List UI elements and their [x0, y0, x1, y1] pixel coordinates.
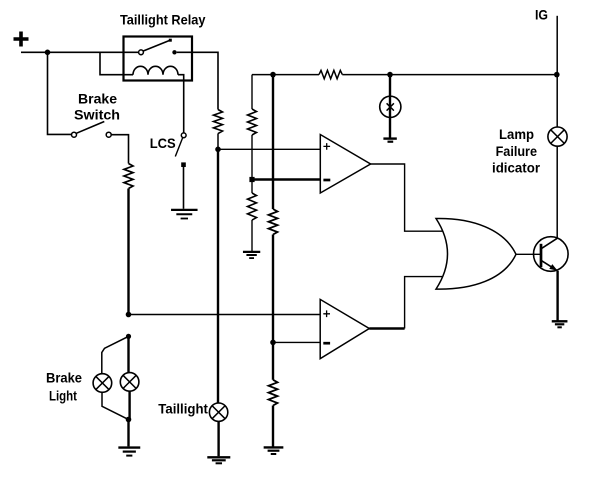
- svg-text:Light: Light: [49, 388, 77, 404]
- svg-text:Brake: Brake: [78, 91, 117, 107]
- svg-text:LCS: LCS: [150, 135, 176, 151]
- svg-text:Switch: Switch: [74, 107, 120, 123]
- svg-text:idicator: idicator: [492, 159, 541, 175]
- svg-text:IG: IG: [535, 6, 548, 22]
- svg-text:Taillight Relay: Taillight Relay: [120, 12, 206, 28]
- svg-text:Taillight: Taillight: [158, 400, 208, 416]
- svg-text:Lamp: Lamp: [499, 126, 534, 142]
- svg-text:Brake: Brake: [46, 370, 82, 386]
- svg-text:Failure: Failure: [496, 143, 538, 159]
